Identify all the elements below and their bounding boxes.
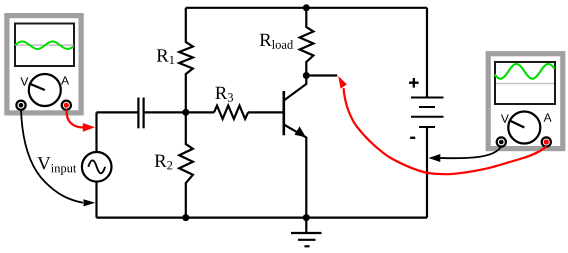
wire top rail: [186, 7, 427, 9]
label R2: [155, 155, 172, 170]
M2 red terminal: [542, 137, 551, 146]
M1 dial needle: [30, 84, 45, 90]
M2 screen sine trace: [495, 64, 555, 79]
wire cap left: [97, 111, 138, 113]
Q1 emitter arrowhead: [295, 126, 306, 137]
multimeter M2 frame: [488, 54, 563, 149]
capacitor C1: [138, 98, 143, 129]
M2 dial needle: [510, 121, 524, 128]
M2 label A: [544, 113, 552, 121]
wire cap to R3: [145, 111, 215, 113]
M2 dial: [508, 112, 540, 144]
M2 label V: [501, 114, 509, 122]
M1 label A: [61, 76, 69, 84]
ground: [291, 218, 322, 247]
node collector: [303, 72, 310, 79]
M1 screen sine trace: [15, 41, 74, 48]
wire input branch upper: [95, 112, 97, 152]
multimeter M2 screen: [495, 62, 555, 104]
node top rail / Rload: [303, 4, 310, 11]
battery - label: [410, 137, 415, 139]
label R3: [215, 87, 233, 102]
source Vinput (AC): [82, 152, 112, 182]
node base divider: [182, 109, 189, 116]
label Vinput: [37, 157, 76, 175]
M1 black terminal: [16, 101, 25, 110]
multimeter M1 screen: [15, 24, 74, 67]
probe wire M2 black to battery minus: [440, 147, 501, 159]
M1 red terminal: [62, 101, 71, 110]
M1 dial: [29, 74, 61, 106]
resistor Rload: [300, 8, 314, 76]
M2 black terminal: [497, 137, 506, 146]
wire collector stub: [306, 74, 337, 76]
transistor Q1: [284, 76, 307, 218]
M2 screen baseline: [496, 83, 554, 85]
probe wire M2 red to collector: [344, 88, 547, 174]
M1 label V: [20, 77, 28, 85]
node bottom R2: [182, 214, 189, 221]
wire right rail lower: [426, 127, 428, 218]
probe wire M1 black to input branch: [21, 110, 83, 203]
resistor R3: [214, 106, 248, 119]
M1 screen baseline: [16, 44, 74, 46]
wire bottom rail: [97, 217, 428, 219]
wire right rail upper: [426, 8, 428, 98]
wire input branch lower: [95, 182, 97, 218]
battery B1: [411, 98, 444, 128]
battery + label: [409, 78, 419, 88]
label R1: [157, 49, 174, 64]
multimeter M1 frame: [7, 16, 81, 113]
resistor R2: [179, 112, 193, 217]
wire R3 to base: [248, 111, 283, 113]
label Rload: [260, 34, 293, 49]
probe wire M1 red to input branch: [67, 110, 83, 128]
resistor R1: [179, 8, 193, 113]
node bottom emitter: [303, 214, 310, 221]
